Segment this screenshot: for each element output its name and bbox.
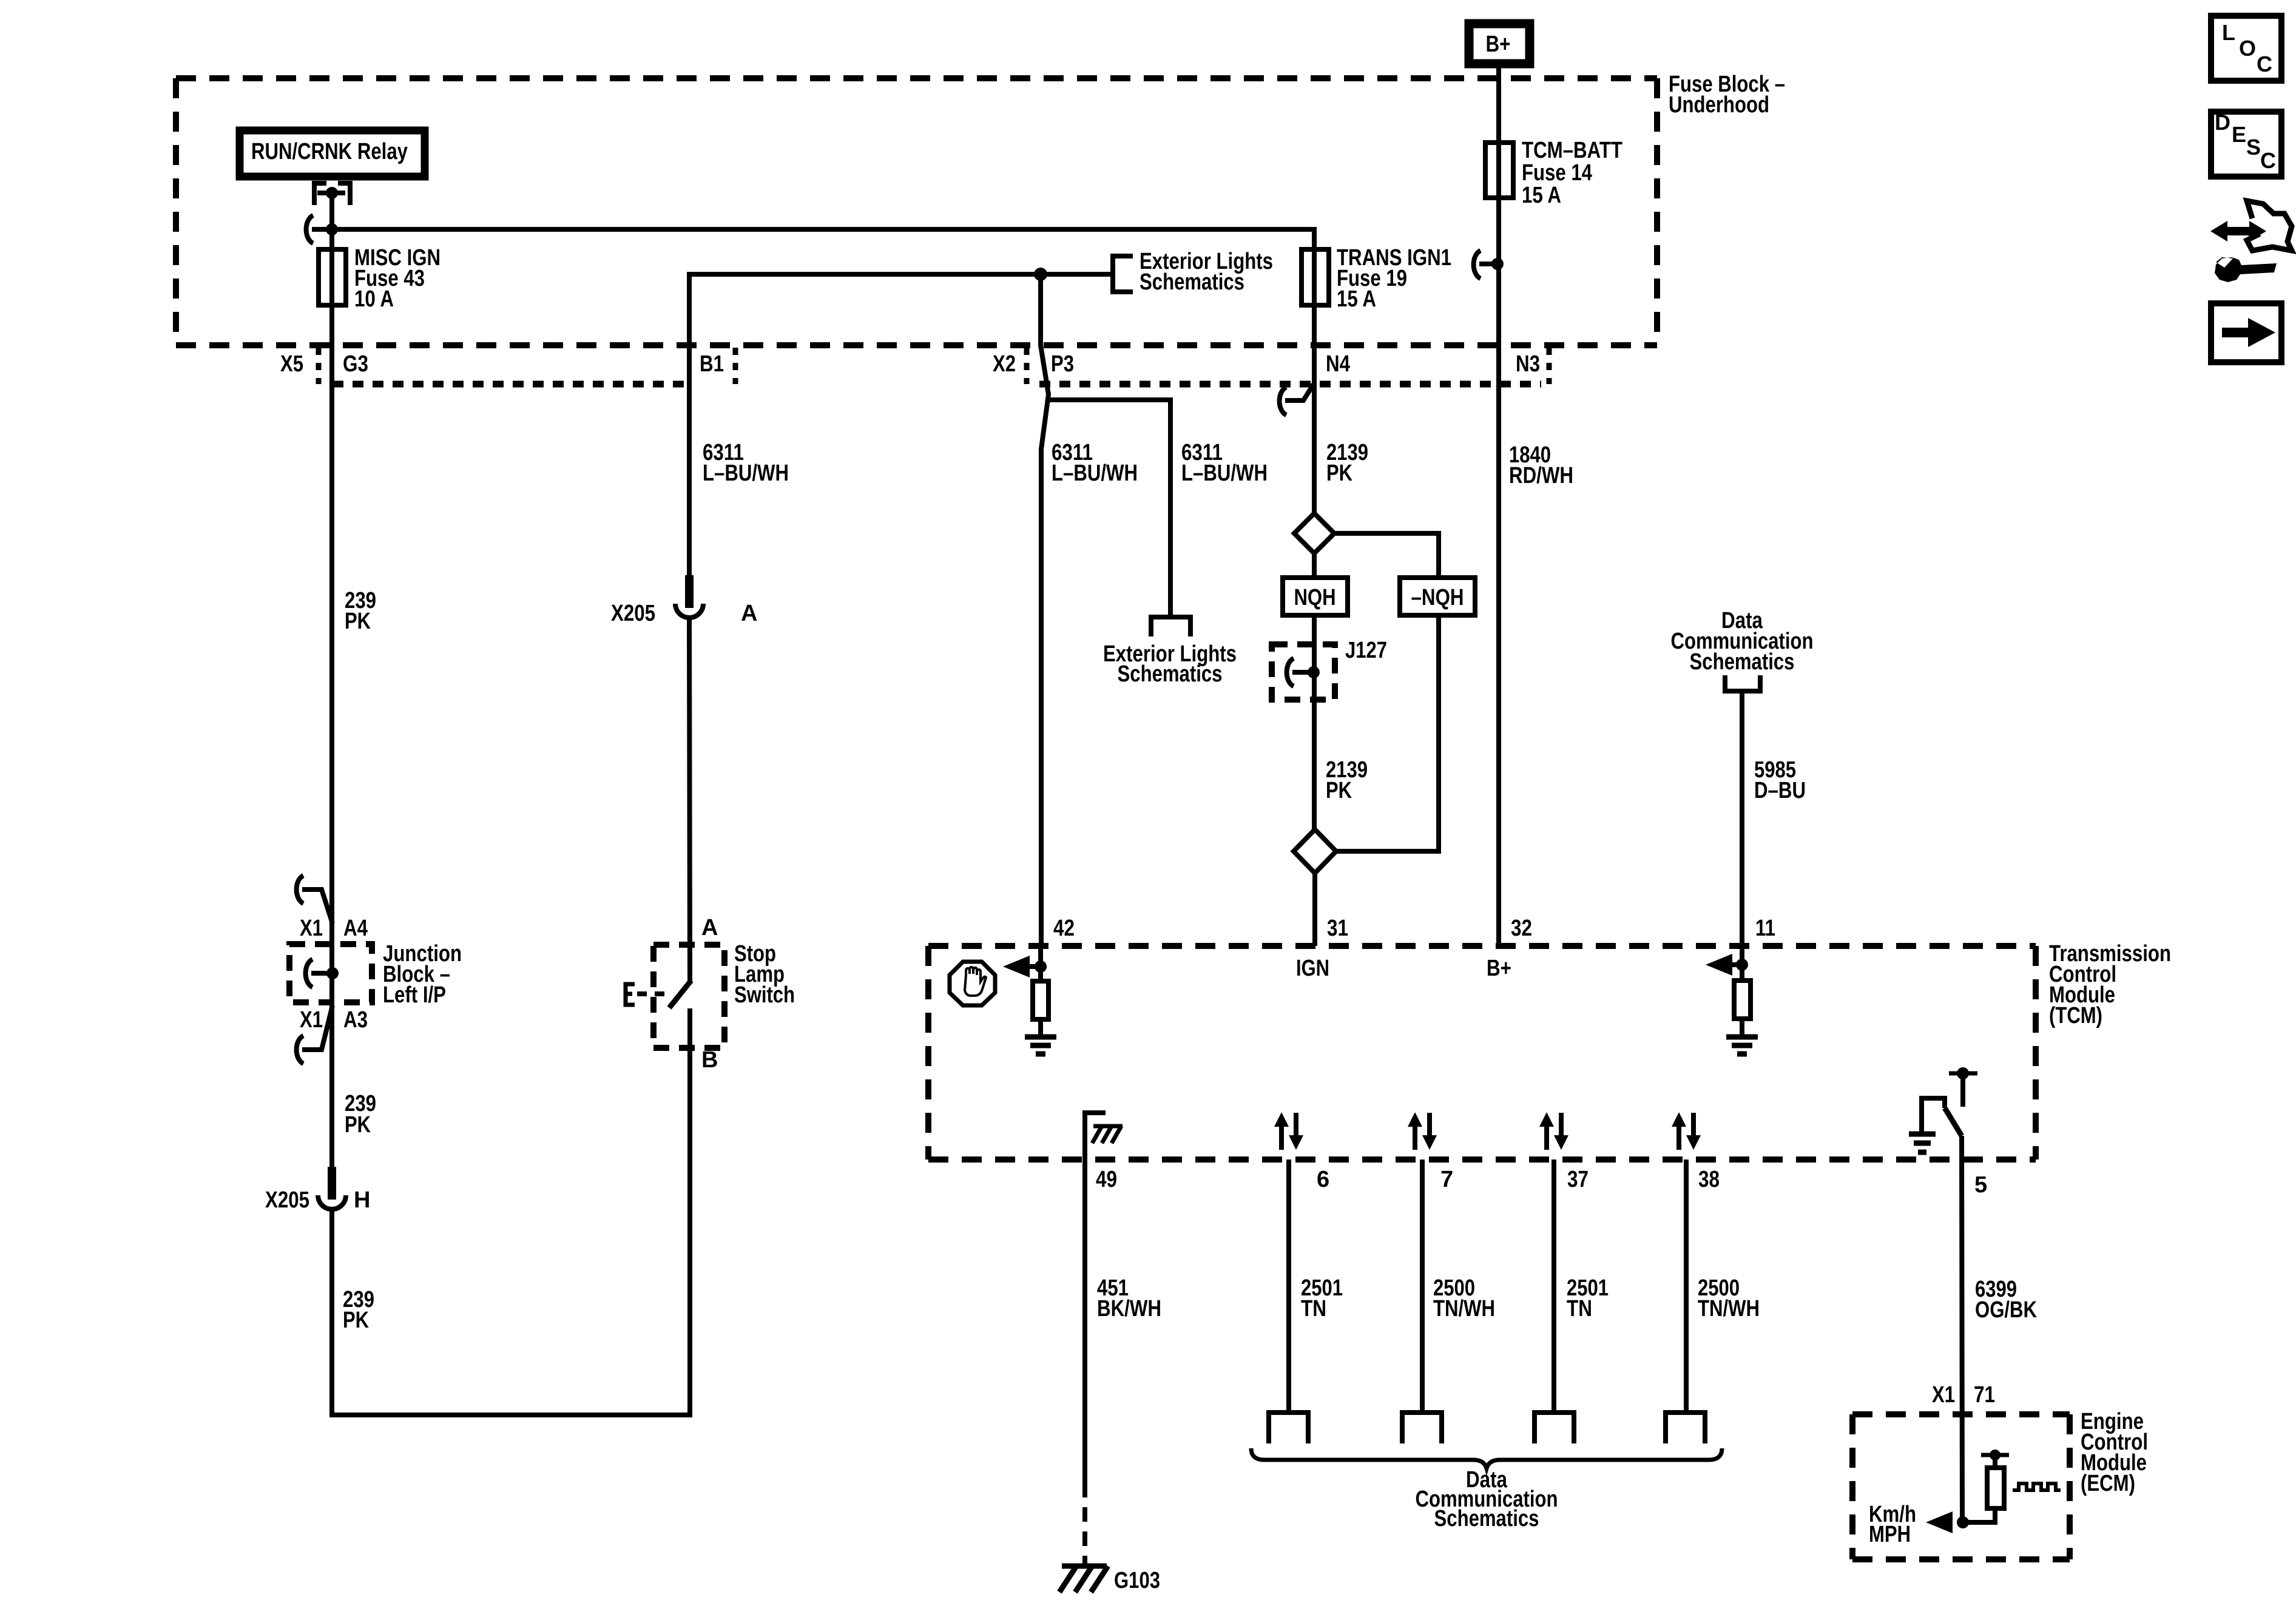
svg-text:TN/WH: TN/WH	[1698, 1296, 1760, 1322]
connector X205 A (inline)	[675, 575, 703, 618]
wire horizontal bus relay to TRANS IGN1 fuse	[332, 229, 1314, 268]
data communication bracket (pointing up)	[1725, 675, 1760, 691]
svg-text:H: H	[354, 1187, 370, 1213]
ECM label	[2081, 1409, 2148, 1496]
node relay output junction	[326, 223, 338, 235]
wire data comm to TCM pin 11	[1740, 691, 1744, 946]
clip at X1 A3	[297, 1005, 333, 1064]
wire resistor to ground (pin 42)	[1038, 1019, 1043, 1035]
wire resistor to ground (pin 11)	[1740, 1019, 1744, 1035]
connector N3 separator	[1547, 348, 1552, 384]
svg-text:PK: PK	[345, 1112, 371, 1138]
connector X205 H (inline)	[318, 1167, 346, 1209]
svg-text:O: O	[2239, 36, 2256, 61]
svg-text:A3: A3	[343, 1007, 368, 1033]
wire label 2501 TN (pin 6)	[1301, 1275, 1343, 1322]
wire X205 H down and across to stop lamp switch B	[332, 1048, 690, 1415]
wire pin 49 down (solid)	[1082, 1160, 1087, 1483]
svg-text:Schematics: Schematics	[1434, 1506, 1539, 1531]
RUN/CRNK Relay box	[240, 130, 425, 177]
fuse TRANS IGN1 (Fuse 19)	[1302, 249, 1329, 305]
splice diamond (upper)	[1294, 513, 1334, 553]
wire label 1840 RD/WH	[1509, 442, 1573, 488]
fuse TCM-BATT (Fuse 14)	[1485, 143, 1513, 198]
stop lamp switch blade	[669, 981, 691, 1008]
DESC icon box	[2211, 110, 2281, 177]
driver alert hand octagon	[950, 962, 995, 1005]
connector band bottom dotted row left (G3 to B1)	[333, 381, 689, 388]
svg-text:7: 7	[1440, 1167, 1453, 1192]
svg-text:P3: P3	[1051, 351, 1074, 377]
svg-text:10 A: 10 A	[354, 286, 394, 312]
svg-text:X205: X205	[265, 1187, 309, 1213]
wire diamond right branch to -NQH	[1334, 533, 1439, 578]
wire B+ through TCM-BATT fuse down to TCM pin 32	[1496, 68, 1501, 946]
svg-text:38: 38	[1698, 1167, 1720, 1192]
svg-text:Schematics: Schematics	[1140, 269, 1244, 295]
Km/h MPH output arrow	[1926, 1511, 1953, 1533]
svg-text:A4: A4	[343, 916, 368, 941]
clip inside J127	[1287, 658, 1309, 686]
svg-text:Left I/P: Left I/P	[383, 982, 446, 1008]
wire pin 38	[1684, 1160, 1689, 1413]
svg-text:TCM–BATT: TCM–BATT	[1522, 138, 1622, 163]
wire junction through MISC IGN fuse to connector G3	[329, 229, 334, 400]
svg-text:–NQH: –NQH	[1411, 585, 1464, 610]
J127 splice dashed box	[1272, 644, 1335, 700]
connector band bottom dotted row right (P3 to N3)	[1039, 381, 1541, 388]
fuse block - underhood (dashed outline)	[176, 78, 1657, 345]
wire pin 6	[1286, 1160, 1291, 1413]
wire label 5985 D-BU	[1754, 757, 1806, 803]
wire label 2501 TN (pin 37)	[1567, 1275, 1609, 1322]
TCM-BATT fuse label	[1522, 138, 1622, 208]
svg-text:NQH: NQH	[1294, 585, 1336, 610]
pin 6 data arrows	[1274, 1112, 1303, 1150]
svg-text:TN: TN	[1301, 1296, 1326, 1322]
wire through TRANS IGN1 fuse down to splice diamond	[1312, 229, 1317, 513]
svg-text:X2: X2	[993, 351, 1016, 377]
svg-text:PK: PK	[345, 609, 371, 634]
ground (pin 42)	[1025, 1037, 1056, 1054]
resistor (pin 11 pull)	[1734, 981, 1751, 1019]
brace data communication	[1251, 1448, 1722, 1468]
exterior lights schematics bracket (top)	[1113, 256, 1133, 292]
wire label 451 BK/WH	[1097, 1275, 1161, 1322]
wire pin 11 to resistor	[1740, 946, 1744, 981]
data communication schematics label (bottom)	[1416, 1467, 1558, 1531]
svg-text:G3: G3	[343, 351, 368, 377]
ground (pin 11)	[1726, 1037, 1758, 1054]
wire pin 37	[1551, 1160, 1556, 1413]
svg-text:71: 71	[1974, 1382, 1995, 1408]
svg-text:L: L	[2222, 20, 2235, 45]
exterior lights schematics bracket (middle, pointing down)	[1151, 617, 1190, 636]
node TCM-BATT wire junction	[1491, 258, 1504, 270]
svg-text:B1: B1	[700, 351, 724, 377]
svg-text:A: A	[741, 601, 757, 626]
svg-text:49: 49	[1096, 1167, 1117, 1192]
svg-text:5: 5	[1974, 1172, 1987, 1198]
svg-text:C: C	[2257, 52, 2272, 76]
clip at TCM-BATT wire junction	[1474, 251, 1494, 279]
wire pin 7	[1420, 1160, 1425, 1413]
svg-text:X1: X1	[300, 1007, 323, 1033]
svg-text:6: 6	[1317, 1167, 1329, 1192]
wire label 2139 PK (lower)	[1326, 757, 1368, 803]
transmission control module (TCM) dashed box	[928, 946, 2036, 1160]
svg-text:Switch: Switch	[734, 982, 795, 1008]
svg-text:11: 11	[1755, 916, 1775, 941]
svg-text:TN/WH: TN/WH	[1433, 1296, 1495, 1322]
node junction block splice	[326, 967, 339, 979]
junction block - left I/P dashed box	[289, 944, 372, 1002]
pulse waveform symbol	[2013, 1484, 2061, 1490]
pin 37 data arrows	[1539, 1112, 1568, 1150]
node J127 junction	[1308, 666, 1320, 678]
pin 38 data arrows	[1672, 1112, 1701, 1150]
wire resistor to pin 71 node	[1963, 1508, 1995, 1522]
node B1 / P3 branch junction	[1034, 268, 1047, 281]
wire X205 A down to stop lamp switch A	[689, 618, 690, 981]
junction block label	[383, 941, 462, 1008]
svg-text:Schematics: Schematics	[1118, 661, 1223, 687]
wire label 6311 L-BU/WH (B1 wire)	[703, 440, 789, 486]
svg-text:PK: PK	[343, 1308, 369, 1333]
svg-text:(ECM): (ECM)	[2081, 1471, 2135, 1496]
terminal (pin 37 wire)	[1535, 1413, 1574, 1443]
wire lower diamond to TCM pin 31	[1312, 873, 1317, 946]
Km/h MPH label	[1869, 1502, 1916, 1547]
ECM internal contact T-bar	[1981, 1450, 2009, 1468]
splice diamond (lower)	[1294, 829, 1336, 873]
svg-text:Fuse 14: Fuse 14	[1522, 160, 1592, 186]
exterior lights schematics label (middle)	[1103, 641, 1237, 687]
svg-text:D–BU: D–BU	[1754, 778, 1806, 803]
svg-text:L–BU/WH: L–BU/WH	[703, 461, 789, 486]
svg-text:B+: B+	[1486, 32, 1511, 57]
terminal (pin 7 wire)	[1402, 1413, 1442, 1443]
svg-text:J127: J127	[1345, 638, 1387, 663]
wire pin 42 to resistor	[1038, 946, 1043, 981]
svg-text:37: 37	[1567, 1167, 1589, 1192]
svg-text:E: E	[2232, 122, 2246, 147]
TCM switch blade	[1945, 1108, 1962, 1136]
resistor (ECM speed signal)	[1987, 1468, 2004, 1508]
wire label 239 PK (lower)	[343, 1287, 374, 1333]
svg-text:C: C	[2260, 148, 2276, 173]
exterior lights schematics label (top)	[1140, 249, 1273, 295]
svg-text:X1: X1	[1932, 1382, 1955, 1408]
node pin 71 junction	[1957, 1516, 1969, 1528]
svg-text:B+: B+	[1487, 956, 1511, 981]
svg-text:D: D	[2215, 110, 2230, 135]
svg-text:BK/WH: BK/WH	[1097, 1296, 1161, 1322]
svg-text:OG/BK: OG/BK	[1975, 1297, 2037, 1323]
svg-text:Underhood: Underhood	[1669, 92, 1769, 118]
connector X2 separator	[1024, 348, 1030, 384]
wire pin 49 down (dashed to G103)	[1082, 1483, 1087, 1564]
svg-text:Schematics: Schematics	[1690, 649, 1795, 675]
svg-text:15 A: 15 A	[1337, 286, 1376, 312]
svg-text:X5: X5	[280, 351, 303, 377]
svg-text:RD/WH: RD/WH	[1509, 463, 1573, 488]
stop lamp switch dashed box	[653, 945, 724, 1048]
ground G103 (chassis)	[1059, 1566, 1108, 1592]
chassis ground stub (pin 49)	[1085, 1113, 1123, 1160]
LOC icon box	[2211, 16, 2281, 81]
part locator icon (panel with arrow and wrench)	[2210, 201, 2292, 282]
terminal (pin 6 wire)	[1269, 1413, 1308, 1443]
svg-text:15 A: 15 A	[1522, 183, 1561, 208]
pin 42 input arrow	[1003, 956, 1041, 977]
wire label 2139 PK (upper)	[1326, 440, 1368, 486]
TCM label	[2049, 941, 2171, 1028]
TRANS IGN1 fuse label	[1337, 245, 1451, 312]
svg-text:N4: N4	[1326, 351, 1350, 377]
wire label 6311 L-BU/WH (pin 42 wire)	[1052, 440, 1138, 486]
MISC IGN fuse label	[354, 245, 441, 312]
resistor (pin 42 pull)	[1033, 981, 1048, 1019]
clip inside junction block	[306, 959, 328, 987]
wire B1 horizontal to exterior lights bracket	[689, 274, 1110, 384]
wire pin 5 down to ECM	[1962, 1136, 1962, 1522]
next schematic arrow icon box	[2211, 303, 2281, 362]
pin 7 data arrows	[1408, 1112, 1437, 1150]
-NQH box	[1400, 578, 1475, 615]
svg-text:B: B	[701, 1047, 718, 1073]
node pin 42 junction	[1035, 960, 1047, 973]
wire label 6311 L-BU/WH (exterior lights stub)	[1181, 440, 1268, 486]
svg-text:L–BU/WH: L–BU/WH	[1052, 461, 1138, 486]
wire diamond down to NQH	[1312, 553, 1317, 578]
node pin 11 junction	[1736, 959, 1748, 971]
data communication schematics label (top right)	[1671, 608, 1814, 675]
fuse MISC IGN (Fuse 43)	[319, 249, 346, 305]
wire NQH down through J127 to lower diamond	[1312, 615, 1317, 829]
relay output terminal bracket	[314, 183, 350, 205]
fuse block label	[1669, 72, 1785, 118]
wire P3 down to TCM pin 42	[1041, 274, 1048, 946]
engine control module (ECM) dashed box	[1852, 1414, 2070, 1559]
TCM switch ground branch	[1909, 1098, 1945, 1152]
svg-text:32: 32	[1511, 916, 1532, 941]
svg-text:TN: TN	[1567, 1296, 1592, 1322]
clip at relay output junction	[306, 215, 328, 243]
svg-text:IGN: IGN	[1296, 956, 1329, 981]
svg-text:PK: PK	[1326, 461, 1352, 486]
svg-text:X205: X205	[611, 601, 655, 626]
wire -NQH down to lower diamond	[1336, 615, 1439, 851]
terminal (pin 38 wire)	[1666, 1413, 1705, 1443]
stop lamp switch label	[734, 941, 795, 1008]
svg-text:G103: G103	[1114, 1568, 1160, 1593]
wire label 239 PK (middle)	[345, 1091, 376, 1138]
wire label 6399 OG/BK	[1975, 1277, 2037, 1323]
pin 11 input arrow	[1706, 954, 1742, 976]
wire label 2500 TN/WH (pin 38)	[1698, 1275, 1760, 1322]
svg-text:(TCM): (TCM)	[2049, 1003, 2102, 1028]
svg-text:31: 31	[1327, 916, 1348, 941]
wire stop lamp switch B lower segment	[687, 1008, 692, 1048]
connector X5 separator	[316, 348, 322, 384]
NQH box	[1283, 578, 1348, 615]
svg-text:X1: X1	[300, 916, 323, 941]
clip branch at N4 below connector	[1280, 384, 1314, 415]
svg-text:RUN/CRNK Relay: RUN/CRNK Relay	[251, 139, 408, 164]
svg-text:L–BU/WH: L–BU/WH	[1181, 461, 1268, 486]
clip at X1 A4	[297, 876, 333, 923]
wire label 2500 TN/WH (pin 7)	[1433, 1275, 1495, 1322]
svg-text:A: A	[701, 915, 718, 940]
wire relay to junction	[329, 193, 334, 229]
TCM output switch (pin 5) contact	[1949, 1067, 1977, 1107]
B+ power box	[1469, 24, 1530, 64]
wire G3 down left column	[329, 400, 334, 1168]
svg-text:MPH: MPH	[1869, 1522, 1911, 1547]
stop lamp switch case stub E	[626, 984, 669, 1005]
svg-text:N3: N3	[1516, 351, 1540, 377]
wire branch P3 to exterior lights stub	[1048, 400, 1170, 617]
svg-text:S: S	[2246, 135, 2261, 160]
wire label 239 PK (upper)	[345, 588, 376, 634]
connector B1 separator	[733, 348, 738, 384]
svg-text:PK: PK	[1326, 778, 1352, 803]
svg-text:42: 42	[1053, 916, 1075, 941]
wire B1 connector down to X205 A	[687, 384, 692, 579]
